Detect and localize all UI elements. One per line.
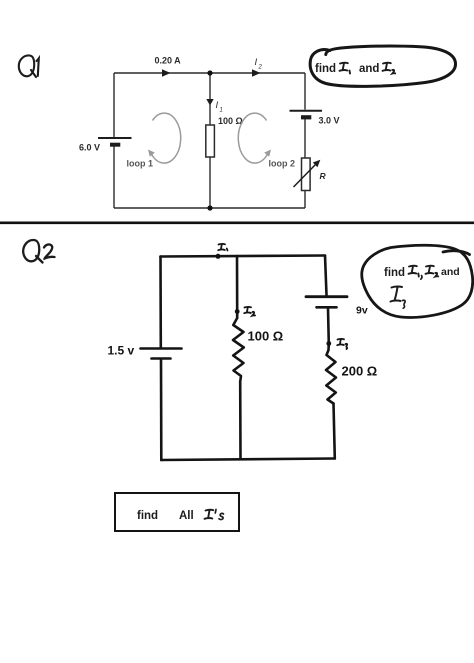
node dot I2 (Q2 middle): [235, 309, 240, 314]
svg-text:2: 2: [258, 65, 263, 71]
svg-text:and: and: [441, 266, 460, 278]
svg-text:loop 1: loop 1: [127, 159, 154, 169]
loop 1 arrow (clockwise arc): [151, 113, 181, 163]
svg-text:loop 2: loop 2: [269, 159, 296, 169]
bubble Q2 handwritten I1: [409, 266, 422, 279]
svg-text:All: All: [179, 510, 194, 522]
battery B4 9v: [306, 297, 347, 308]
wire right lower (Q2): [334, 404, 335, 459]
wire left lower (Q1): [113, 146, 115, 208]
svg-text:100 Ω: 100 Ω: [248, 329, 284, 344]
wire left upper (Q2): [159, 257, 162, 348]
svg-text:1: 1: [220, 108, 223, 114]
arrow I2 on top wire: [252, 69, 261, 76]
handwritten Q1 label: [19, 55, 39, 77]
svg-text:100 Ω: 100 Ω: [218, 116, 243, 126]
wire bottom (Q1): [114, 207, 305, 209]
resistor 100 ohm zigzag: [233, 318, 244, 382]
box handwritten I's: [205, 510, 224, 520]
handwritten I3 (Q2): [337, 339, 347, 349]
svg-text:0.20 A: 0.20 A: [155, 56, 182, 66]
node dot top junction: [207, 70, 212, 75]
node dot I1 (Q2 top): [216, 254, 221, 259]
arrow I1 on middle branch: [206, 99, 213, 106]
svg-text:find: find: [137, 510, 158, 522]
battery B1 6.0 V: [98, 138, 132, 145]
node dot I3 (Q2 right): [326, 341, 331, 346]
svg-text:1.5 v: 1.5 v: [108, 344, 135, 358]
bubble Q1 handwritten I1: [340, 63, 351, 74]
svg-text:find: find: [315, 63, 336, 75]
answer box: find All I's: [115, 493, 239, 531]
svg-text:and: and: [359, 63, 379, 75]
wire middle branch lower (Q1): [209, 157, 211, 208]
svg-text:3.0 V: 3.0 V: [319, 116, 340, 126]
bubble Q2 handwritten I2: [426, 266, 439, 277]
wire middle lower (Q2): [239, 382, 242, 460]
arrow 0.20 A on top wire: [162, 69, 171, 76]
svg-text:200 Ω: 200 Ω: [342, 364, 378, 379]
box text: find All I's: [137, 510, 194, 522]
battery B2 3.0 V: [290, 111, 323, 118]
bubble Q2 text line 2: I3 (handwritten): [391, 286, 406, 308]
handwritten I1 (Q2): [218, 244, 227, 251]
handwritten Q2 label: [23, 240, 54, 263]
bubble Q1: find I1 and I2: [310, 46, 455, 86]
svg-text:find: find: [384, 267, 405, 279]
loop 2 arrow (counterclockwise arc): [238, 113, 268, 163]
svg-text:R: R: [320, 171, 327, 181]
wire left lower (Q2): [160, 360, 163, 461]
wire right middle (Q1): [304, 119, 306, 158]
svg-text:I: I: [255, 57, 258, 68]
divider line: [0, 222, 474, 225]
bubble Q1 text: find I1 and I2: [315, 63, 379, 75]
wire right battery-to-I3 (Q2): [327, 309, 330, 345]
wire bottom (Q2): [161, 459, 334, 461]
wire right lower (Q1): [304, 191, 306, 209]
battery B3 1.5 v: [141, 349, 182, 359]
wire top (Q1): [114, 72, 305, 74]
wire middle upper (Q2): [236, 256, 239, 318]
wire top (Q2): [161, 256, 326, 257]
wire right upper (Q1): [304, 73, 306, 110]
svg-text:9v: 9v: [356, 305, 368, 317]
resistor 100 ohm (Q1 box): [206, 125, 215, 157]
node dot bottom junction: [207, 205, 212, 210]
svg-text:6.0 V: 6.0 V: [79, 143, 100, 153]
bubble Q2: find I1, I2 and I3: [362, 245, 473, 317]
resistor 200 ohm zigzag: [326, 344, 336, 404]
bubble Q2 text line 1: find I1 , I2 and: [384, 266, 460, 279]
handwritten I2 (Q2): [244, 307, 255, 316]
wire left upper (Q1): [113, 73, 115, 137]
svg-text:I: I: [216, 100, 219, 111]
wire right upper (Q2): [325, 256, 327, 296]
variable resistor R: [294, 158, 321, 191]
bubble Q1 handwritten I2: [383, 63, 396, 74]
wire middle branch upper (Q1): [209, 73, 211, 125]
